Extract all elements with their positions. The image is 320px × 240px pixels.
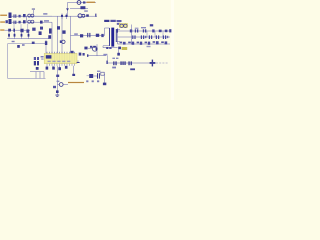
resistor R6 on N	[19, 21, 21, 24]
wire vertical sense bus	[57, 16, 59, 53]
emitter blob Q2	[56, 90, 59, 93]
wire N input	[11, 21, 52, 23]
wire rail S2	[118, 36, 171, 38]
resistor R19	[101, 72, 104, 75]
wire T1 secondary bottom pin	[116, 41, 120, 43]
label C12 text	[74, 33, 78, 34]
diode D7 aux	[118, 47, 121, 50]
wire opto bottom bus	[30, 71, 44, 73]
capacitor CX4	[23, 20, 26, 23]
junction dots S1	[152, 29, 167, 32]
wire opto drops	[36, 72, 44, 79]
capacitor CY2	[66, 13, 68, 19]
resistor R8 mid	[39, 31, 42, 35]
label above box	[12, 41, 15, 42]
label above V2	[112, 58, 118, 59]
label row S3 b	[128, 42, 134, 45]
varistor RV1	[6, 19, 12, 24]
arrow S1 output	[169, 29, 171, 32]
capacitor C27 on V2	[128, 61, 132, 65]
ground near U1	[77, 60, 80, 63]
label Q2 text	[53, 86, 56, 88]
wire T1 primary top pin	[105, 28, 110, 36]
node AC-L label	[0, 15, 7, 16]
inductor LF1 winding B	[28, 20, 34, 23]
capacitor C25 on S2	[163, 35, 168, 39]
capacitor C20 on S1	[143, 29, 147, 32]
capacitor C4 bulk	[48, 35, 51, 39]
resistor R7 divider	[36, 67, 39, 70]
wire S3 vertical link	[131, 25, 133, 45]
wire stubs rail B to PE row	[14, 24, 28, 30]
wire clamp mid rail	[70, 8, 88, 10]
wire gate	[88, 47, 92, 49]
inductor L3 on V2	[120, 61, 125, 65]
wire L input	[11, 15, 52, 17]
wire HV to drain bus	[70, 16, 72, 55]
wire IC pin to Q2	[57, 66, 59, 91]
capacitor C23 on S2	[149, 35, 152, 39]
capacitor C21 on S2	[132, 35, 135, 39]
capacitor C17 pin filter	[65, 66, 68, 69]
wire S1-S2 links	[147, 31, 163, 37]
diode D8 on PE row	[32, 28, 35, 31]
wire HV bus horizontal	[71, 35, 105, 37]
wire vertical startup R bus	[51, 22, 53, 53]
thermistor RT1	[8, 29, 11, 32]
transformer T1 label	[104, 20, 116, 22]
wire vertical aux bus	[61, 16, 63, 53]
junction PE-N	[26, 29, 29, 32]
wire PE	[5, 29, 31, 31]
wire clamp vertical	[67, 3, 69, 17]
regulator U3 TL431	[87, 74, 94, 78]
resistor R12 on HV bus	[80, 34, 83, 37]
bridge rectifier D2	[14, 32, 16, 39]
feedback shield box	[8, 44, 46, 79]
transistor Q2	[58, 83, 64, 87]
capacitor C26 on V2	[113, 61, 117, 65]
node PE label	[0, 29, 4, 30]
fuse F2 on V2	[150, 60, 156, 67]
wire Q2 collector right	[63, 84, 68, 86]
resistor R14 gate	[84, 47, 87, 50]
resistor R11 clamp	[80, 6, 87, 12]
node AC-N label	[0, 21, 5, 22]
capacitor C14 pin filter	[46, 66, 49, 70]
junction box top right	[32, 42, 35, 44]
label D7 yellow text	[122, 47, 128, 50]
bridge rectifier D3	[21, 32, 23, 39]
fuse F1	[9, 13, 12, 19]
label C5 text	[43, 13, 47, 14]
capacitor C15 pin filter	[52, 66, 55, 70]
bridge rectifier D1	[8, 32, 10, 39]
label FB text	[86, 80, 99, 82]
components right of U1	[79, 53, 85, 56]
tick left end V2	[106, 56, 107, 65]
capacitor C13	[87, 33, 90, 37]
resistor R17 pin	[72, 66, 75, 76]
wire output rail V2 dashed	[156, 62, 168, 64]
ground Q2	[55, 93, 59, 97]
junction HV bus end	[101, 34, 103, 37]
label above C19	[97, 71, 100, 72]
label Q1 text	[90, 46, 96, 48]
capacitor C18 in box	[17, 45, 20, 48]
label row S3 e	[153, 41, 159, 44]
IC U1 PWM controller	[44, 53, 77, 63]
wire rail S1	[118, 30, 172, 32]
transistor Q1 MOSFET	[92, 44, 97, 56]
IC U1 top pins	[47, 52, 75, 54]
label row S3 f	[161, 41, 167, 44]
inductor LF1 winding A	[28, 14, 34, 17]
capacitor CY3 to earth	[32, 9, 35, 14]
resistor R4	[45, 40, 47, 53]
transformer T1 secondary winding	[115, 29, 117, 42]
resistor R9 upper	[40, 27, 43, 30]
wire U3 to C19	[93, 75, 97, 77]
wire T1 primary bottom pin	[103, 46, 110, 48]
transformer T1 core	[111, 28, 114, 47]
IC U1 bottom pins	[47, 64, 75, 66]
resistor R2	[57, 26, 60, 29]
label left of U1	[41, 56, 44, 60]
wire secondary rail bus	[117, 28, 119, 44]
capacitor C16 pin filter	[58, 66, 61, 70]
label row S3 d	[145, 42, 151, 45]
label under V2	[112, 67, 116, 69]
wire top HV rail	[11, 15, 97, 17]
wire aux winding rail	[103, 47, 118, 49]
wire junction vertical L-N	[26, 16, 28, 22]
diode D6 on HV rail	[78, 14, 89, 18]
wire HV rail end tick	[95, 14, 96, 17]
capacitor C19	[97, 73, 100, 78]
background	[0, 0, 174, 100]
capacitor C9 on N rail	[40, 20, 49, 23]
label on Q2 base line	[57, 81, 60, 82]
capacitor C3 on PE	[20, 29, 23, 33]
label below S3	[147, 46, 151, 47]
resistor R13	[96, 34, 99, 37]
transformer T1 yellow highlight	[119, 23, 128, 28]
capacitor CX3	[23, 14, 26, 17]
tick S1 left end	[117, 29, 118, 32]
capacitor CX2	[14, 21, 17, 24]
diode D5 clamp	[66, 8, 69, 10]
wire T1 secondary top pin	[116, 29, 120, 31]
capacitor C6 clamp	[77, 1, 85, 5]
wire U3 down	[104, 74, 106, 83]
wire clamp top rail	[68, 2, 97, 4]
diode D201	[120, 24, 127, 27]
marks on Q2 line	[56, 75, 59, 77]
capacitor CX1	[14, 14, 17, 17]
capacitor C24 on S2	[156, 35, 159, 39]
resistor R5 on L	[19, 15, 21, 18]
bridge rectifier D4	[28, 32, 30, 39]
page right margin strip	[171, 0, 174, 100]
wire rail S3	[118, 43, 171, 45]
resistor R15 on drain bus	[71, 51, 74, 54]
optocoupler U2	[34, 57, 39, 65]
label text in box	[22, 44, 25, 46]
orange net highlight FB	[68, 82, 84, 83]
junction dot PE	[13, 29, 15, 32]
label C7 text	[106, 47, 111, 49]
ground U3	[103, 83, 106, 86]
capacitor C22 on S2	[141, 35, 147, 39]
label net name V2	[130, 68, 135, 70]
junction S1 link	[130, 29, 132, 32]
inductor L2 on S1	[135, 28, 139, 33]
label above L2	[141, 27, 146, 28]
resistor R1 startup	[49, 28, 52, 33]
wire HV minus bus	[7, 38, 49, 40]
label row S3 a	[120, 42, 126, 45]
capacitor C8 aux	[117, 49, 120, 55]
transformer T1 sublabel	[117, 20, 122, 25]
wire output rail V2	[107, 62, 156, 64]
label R10 orange	[87, 2, 96, 3]
capacitor CY1	[61, 13, 63, 19]
wire source sense	[87, 54, 107, 57]
transistor Q3 small	[60, 40, 65, 43]
label row S3 c	[137, 42, 143, 45]
resistor R3	[62, 30, 65, 33]
transformer T1 primary winding	[109, 28, 111, 46]
label above S1	[150, 24, 153, 26]
